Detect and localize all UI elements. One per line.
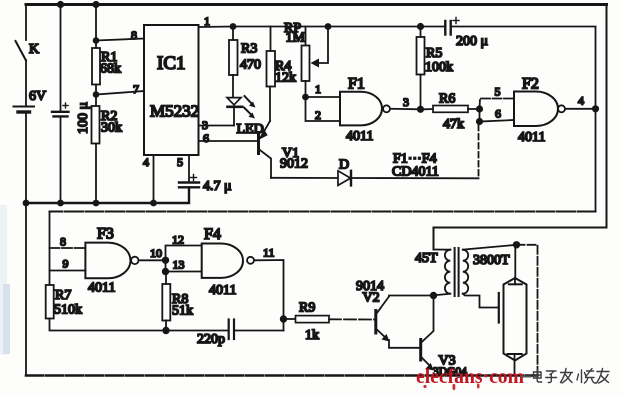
svg-text:F3: F3 (97, 226, 114, 243)
resistor R1 68k (95, 5, 97, 49)
svg-text:IC1: IC1 (157, 53, 186, 74)
svg-text:12: 12 (172, 233, 184, 247)
svg-text:R6: R6 (439, 92, 455, 107)
wire battery to bottom-left rail (25, 114, 27, 204)
svg-text:8: 8 (131, 28, 137, 42)
svg-text:4: 4 (578, 94, 584, 108)
wire bottom rail (26, 374, 538, 377)
capacitor 200u (444, 21, 446, 35)
resistor R8 51k (165, 272, 167, 285)
svg-text:3800T: 3800T (473, 253, 510, 268)
battery 6V (14, 106, 35, 108)
wire node to right stand-off down to bottom rail (517, 245, 538, 376)
transistor Q1: V1 9012 PNP (257, 133, 260, 154)
transistor Q3: V3 NPN (419, 340, 422, 361)
wire F3 input 9 (50, 270, 86, 272)
wire ground rail1 (26, 190, 189, 204)
wire IC pin5 down (188, 155, 190, 182)
wire rail2 F2 output to F3 input column (50, 211, 596, 213)
svg-text:13: 13 (173, 258, 185, 272)
svg-text:68k: 68k (100, 62, 121, 77)
resistor R5 100k (417, 23, 424, 30)
svg-text:CD4011: CD4011 (392, 165, 439, 180)
transformer primary 45T (434, 249, 451, 251)
RP wiper (325, 23, 332, 30)
NAND gate F3 4011 (85, 243, 130, 279)
wire IC pin4 down to rail1 (153, 155, 155, 203)
svg-text:1: 1 (204, 14, 210, 28)
svg-text:M5232: M5232 (150, 102, 199, 121)
wire V1 collector to diode D (271, 177, 338, 179)
电 (534, 369, 542, 382)
svg-text:11: 11 (263, 246, 275, 260)
wire RP to F1 inputs (305, 81, 307, 97)
resistor R7 510k (49, 285, 51, 286)
node R6 output junctions (476, 105, 483, 112)
wire node10 to F4 input 12 (166, 246, 202, 261)
svg-text:9012: 9012 (280, 157, 308, 172)
svg-text:7: 7 (133, 82, 139, 96)
diode D (338, 171, 351, 186)
wire node10 to F4 input 13 (166, 260, 202, 271)
wire F4 output node 11 down (254, 260, 284, 319)
svg-text:5: 5 (177, 155, 183, 169)
发 (561, 369, 573, 384)
node V2/V3 collector junction (430, 292, 437, 299)
capacitor 4.7u (179, 181, 199, 183)
烧 (577, 369, 596, 384)
svg-text:6: 6 (495, 107, 501, 121)
svg-text:9: 9 (63, 257, 69, 271)
svg-text:2: 2 (315, 108, 321, 122)
svg-text:47k: 47k (443, 117, 464, 132)
node top rail junctions (57, 1, 100, 8)
wire secondary bottom to trigger electrode (463, 294, 498, 308)
tube bottom electrode (508, 353, 522, 355)
wire pin1 net along y=26.5 (199, 26, 445, 29)
wire to F2 input 5 (480, 99, 515, 110)
wire F3 input 8 (50, 247, 86, 249)
svg-text:F4: F4 (204, 226, 221, 243)
svg-text:220p: 220p (197, 332, 225, 347)
capacitor 220p (166, 330, 228, 332)
子 (546, 371, 557, 383)
svg-text:6V: 6V (29, 89, 46, 104)
svg-text:R7: R7 (55, 288, 71, 303)
NAND gate F4 4011 (202, 244, 243, 278)
wire IC pin6 to V1 base (199, 140, 258, 142)
svg-text:510k: 510k (54, 303, 82, 318)
scan smudge left edge (0, 205, 10, 355)
wire pin7 to IC (96, 91, 144, 95)
wire secondary top to tube node (463, 245, 517, 250)
svg-text:4011: 4011 (518, 130, 545, 145)
友 (597, 369, 610, 384)
node rail1 junctions (23, 200, 157, 207)
resistor R3 470 (230, 23, 237, 30)
svg-text:51k: 51k (172, 304, 193, 319)
svg-text:F2: F2 (522, 76, 539, 93)
NAND gate F2 4011 (514, 92, 558, 127)
wire diode to dashed riser (352, 177, 479, 179)
svg-text:V2: V2 (363, 291, 380, 306)
svg-text:4: 4 (143, 155, 149, 169)
wire top supply rail from battery to right edge (26, 3, 607, 6)
transistor Q2: V2 9014 NPN (374, 311, 377, 334)
resistor R9 1k (284, 318, 296, 320)
tube top electrode (514, 278, 516, 284)
watermark dash (521, 376, 532, 378)
switch K (25, 5, 27, 41)
svg-text:1M: 1M (286, 31, 306, 46)
watermark elecfans.com (416, 364, 524, 388)
transformer secondary 3800T (463, 250, 468, 294)
svg-text:F1: F1 (348, 76, 365, 93)
svg-text:5: 5 (495, 85, 501, 99)
svg-text:4011: 4011 (346, 129, 373, 144)
svg-text:10: 10 (150, 246, 162, 260)
wire F2 output node 4 (565, 108, 596, 110)
resistor R4 12k (270, 27, 272, 52)
svg-text:100 μ: 100 μ (76, 102, 91, 134)
transformer core (454, 248, 456, 296)
wire IC pin3 to LED (199, 125, 235, 127)
wire right edge down to transformer feed (434, 5, 607, 250)
svg-text:200 μ: 200 μ (456, 34, 488, 49)
svg-text:1k: 1k (305, 328, 319, 343)
svg-text:R9: R9 (299, 301, 315, 316)
svg-text:3: 3 (403, 95, 409, 109)
wire F1 output node 3 (390, 108, 421, 111)
wire dashed riser to R6 node (478, 125, 480, 178)
svg-text:8: 8 (60, 235, 66, 249)
svg-text:elecfans·com: elecfans·com (416, 364, 524, 388)
svg-text:4011: 4011 (209, 283, 236, 298)
flash tube trigger plate (498, 293, 500, 323)
svg-text:6: 6 (203, 131, 209, 145)
svg-text:4011: 4011 (88, 281, 115, 296)
svg-text:470: 470 (240, 58, 261, 73)
svg-text:D: D (339, 158, 349, 173)
svg-text:K: K (29, 42, 39, 57)
svg-text:12k: 12k (275, 71, 296, 86)
resistor R2 30k (92, 106, 100, 144)
wire 200u to right edge down to rail2 (452, 27, 596, 212)
svg-text:45T: 45T (415, 251, 438, 266)
capacitor 100u (60, 5, 62, 112)
wire node down to tube top (514, 245, 516, 278)
NAND gate F1 4011 (340, 92, 382, 126)
wire tube bottom to rail (514, 361, 516, 376)
svg-text:4.7 μ: 4.7 μ (203, 179, 232, 194)
LED (227, 98, 241, 105)
svg-text:1: 1 (315, 82, 321, 96)
svg-text:R3: R3 (241, 42, 257, 57)
wire F3 output node 10 (139, 259, 166, 261)
potentiometer RP 1M (305, 27, 307, 46)
svg-text:30k: 30k (101, 121, 122, 136)
flash tube (504, 278, 527, 361)
resistor R6 47k (424, 108, 433, 110)
op-amp U1: IC1 M5232 box (144, 25, 199, 155)
svg-text:R5: R5 (426, 46, 442, 61)
watermark Chinese characters 电子发烧友 (534, 369, 610, 384)
svg-text:100k: 100k (425, 60, 453, 75)
wire battery column to bottom rail (25, 203, 27, 376)
LED emission arrows (244, 96, 252, 115)
wire pin8 to IC (96, 39, 144, 41)
wire to F2 input 6 (480, 120, 515, 122)
